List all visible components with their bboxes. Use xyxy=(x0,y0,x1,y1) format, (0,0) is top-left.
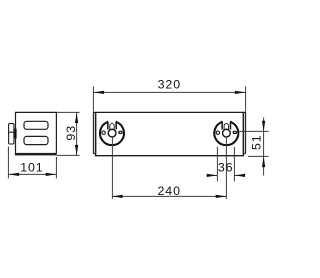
dim 51 arrow bottom xyxy=(262,157,265,168)
front view right edge xyxy=(245,112,247,154)
dim 93 extension top xyxy=(57,111,80,113)
dim 240 arrow right xyxy=(216,195,227,198)
dim 320 extension right xyxy=(245,86,247,111)
front view top edge xyxy=(93,111,245,113)
dim 320 arrow left xyxy=(94,91,105,94)
side view mounting clip tab xyxy=(9,124,14,144)
front view right end-cap inner line xyxy=(242,112,244,155)
side view bottom diffuser band xyxy=(15,153,57,156)
svg-text:93: 93 xyxy=(64,125,78,141)
dim 51 arrow top xyxy=(262,121,265,132)
svg-text:51: 51 xyxy=(250,134,264,150)
svg-text:36: 36 xyxy=(218,161,234,175)
inner screw head circle xyxy=(108,129,116,137)
dim 101 extension right xyxy=(55,157,57,178)
dim 36 left outside segment xyxy=(207,174,218,176)
keyhole mount left : outer circle with top notch xyxy=(100,121,124,145)
dim 101 arrow right xyxy=(46,173,57,176)
tiny fixing slot xyxy=(118,131,122,134)
side view body outline xyxy=(16,112,57,153)
notch walls xyxy=(220,121,223,129)
dim 51 extension bottom xyxy=(248,155,269,157)
dim 240 line xyxy=(112,195,226,197)
side view louvre slot lower xyxy=(24,136,48,144)
front view left end-cap inner line xyxy=(95,112,97,155)
front view left edge xyxy=(92,112,94,154)
dim 51 extension top xyxy=(239,130,268,132)
inner screw head circle xyxy=(223,129,231,137)
dim 51 line xyxy=(263,118,265,176)
dim 93 arrow bottom xyxy=(75,145,78,156)
dim 36 right outside segment xyxy=(234,174,245,176)
notch walls xyxy=(106,121,109,129)
centerline right keyhole xyxy=(225,138,227,199)
screw shaft slot xyxy=(110,124,114,130)
dim 36 arrow left xyxy=(207,174,218,177)
dim 93 line xyxy=(76,112,78,155)
dim 101 line xyxy=(8,173,56,175)
dim 320 line xyxy=(93,91,245,93)
dim 36 extension left xyxy=(216,147,218,181)
tiny fixing hole xyxy=(216,131,219,134)
svg-text:240: 240 xyxy=(158,184,181,198)
dim 101 arrow left xyxy=(9,173,20,176)
dim 36 extension right xyxy=(233,147,235,181)
tiny fixing slot xyxy=(233,131,237,134)
svg-text:101: 101 xyxy=(20,160,43,174)
tiny fixing hole xyxy=(102,131,105,134)
dim 320 arrow right xyxy=(235,91,246,94)
dim 240 arrow left xyxy=(112,195,123,198)
dim 320 extension left xyxy=(92,86,94,111)
svg-text:320: 320 xyxy=(158,78,181,92)
side view clip contact dark segment xyxy=(14,129,16,139)
dim 36 arrow right xyxy=(235,174,246,177)
dim 101 extension left xyxy=(7,147,9,179)
centerline left keyhole xyxy=(111,138,113,199)
front view bottom edge xyxy=(95,155,244,157)
side view louvre slot upper xyxy=(24,121,48,129)
dim 93 arrow top xyxy=(75,113,78,124)
dim 93 extension bottom xyxy=(57,154,80,156)
front view cap bottom steps xyxy=(93,153,95,155)
screw shaft slot xyxy=(224,124,228,130)
keyhole mount right : outer circle with top notch xyxy=(214,121,238,145)
